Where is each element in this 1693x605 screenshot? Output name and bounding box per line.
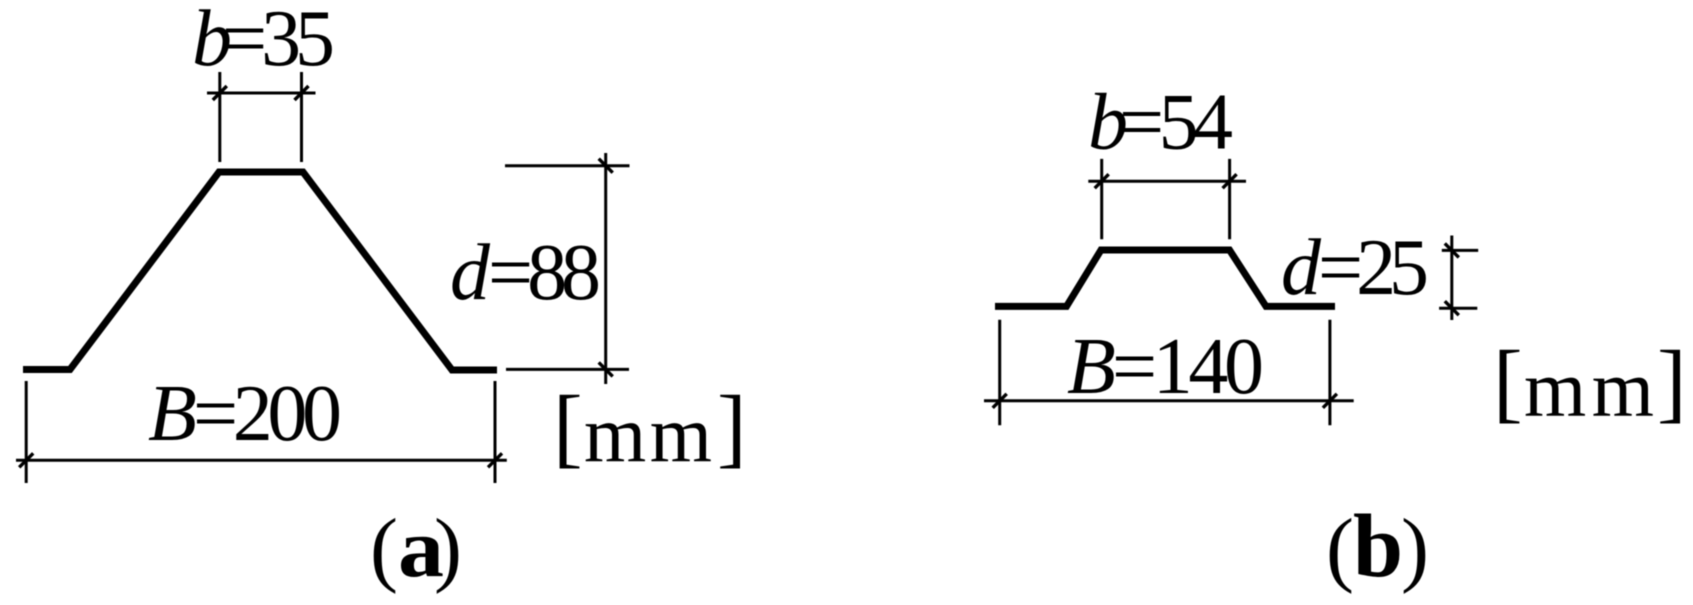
svg-text:mm: mm [1524, 346, 1654, 434]
svg-text:b: b [1353, 497, 1403, 596]
svg-text:B: B [1067, 323, 1116, 411]
dimension B=140 extension line right [1328, 320, 1331, 425]
dimension B=140 tick right [1323, 394, 1337, 408]
svg-text:=35: =35 [222, 0, 335, 83]
dimension B=140 tick left [993, 394, 1007, 408]
dimension b=35 tick left [213, 86, 227, 100]
dimension b=35 dimension line [207, 92, 316, 95]
dimension B=140 extension line left [998, 320, 1001, 425]
dimension d=25 tick top [1445, 243, 1459, 257]
svg-text:): ) [1401, 502, 1429, 595]
svg-text:=88: =88 [488, 229, 601, 317]
svg-text:d: d [1281, 224, 1322, 312]
dimension d=88 dimension line [604, 153, 607, 384]
svg-text:]: ] [1657, 334, 1687, 432]
profile (b) trapezoidal section outline [995, 250, 1335, 306]
svg-text:d: d [450, 229, 491, 317]
svg-text:): ) [434, 502, 462, 595]
dimension b=54 extension line left [1100, 159, 1103, 239]
dimension d=88 top reference line [505, 164, 630, 167]
dimension b=35 tick right [295, 86, 309, 100]
dimension B=200 extension line left [25, 381, 28, 483]
dimension d=88 tick top [599, 159, 613, 173]
dimension d=25 bottom reference line [1439, 307, 1477, 310]
svg-text:(: ( [1326, 502, 1354, 595]
dimension B=200 tick right [488, 453, 502, 467]
svg-text:[: [ [553, 379, 583, 477]
dimension d=25 dimension line [1450, 236, 1453, 321]
svg-text:=200: =200 [193, 370, 342, 458]
dimension b=35 extension line left [218, 72, 221, 162]
dimension d=88 bottom reference line [506, 368, 629, 371]
svg-text:=25: =25 [1318, 224, 1429, 312]
svg-text:]: ] [717, 379, 747, 477]
dimension b=54 tick left [1095, 174, 1109, 188]
dimension b=54 tick right [1223, 174, 1237, 188]
dimension b=35 extension line right [300, 72, 303, 162]
dimension B=200 tick left [19, 453, 33, 467]
dimension d=25 top reference line [1442, 249, 1478, 252]
svg-text:[: [ [1493, 334, 1523, 432]
dimension d=88 tick bottom [599, 362, 613, 376]
svg-text:(: ( [370, 502, 398, 595]
dimension B=200 dimension line [16, 459, 507, 462]
svg-text:=140: =140 [1112, 323, 1264, 411]
svg-text:mm: mm [584, 391, 712, 479]
dimension d=25 tick bottom [1445, 301, 1459, 315]
svg-text:=54: =54 [1119, 79, 1233, 167]
profile (a) trapezoidal section outline [23, 172, 497, 370]
dimension b=54 extension line right [1228, 159, 1231, 239]
dimension b=54 dimension line [1088, 180, 1246, 183]
dimension B=140 dimension line [984, 399, 1354, 402]
svg-text:B: B [148, 370, 197, 458]
dimension B=200 extension line right [494, 381, 497, 483]
